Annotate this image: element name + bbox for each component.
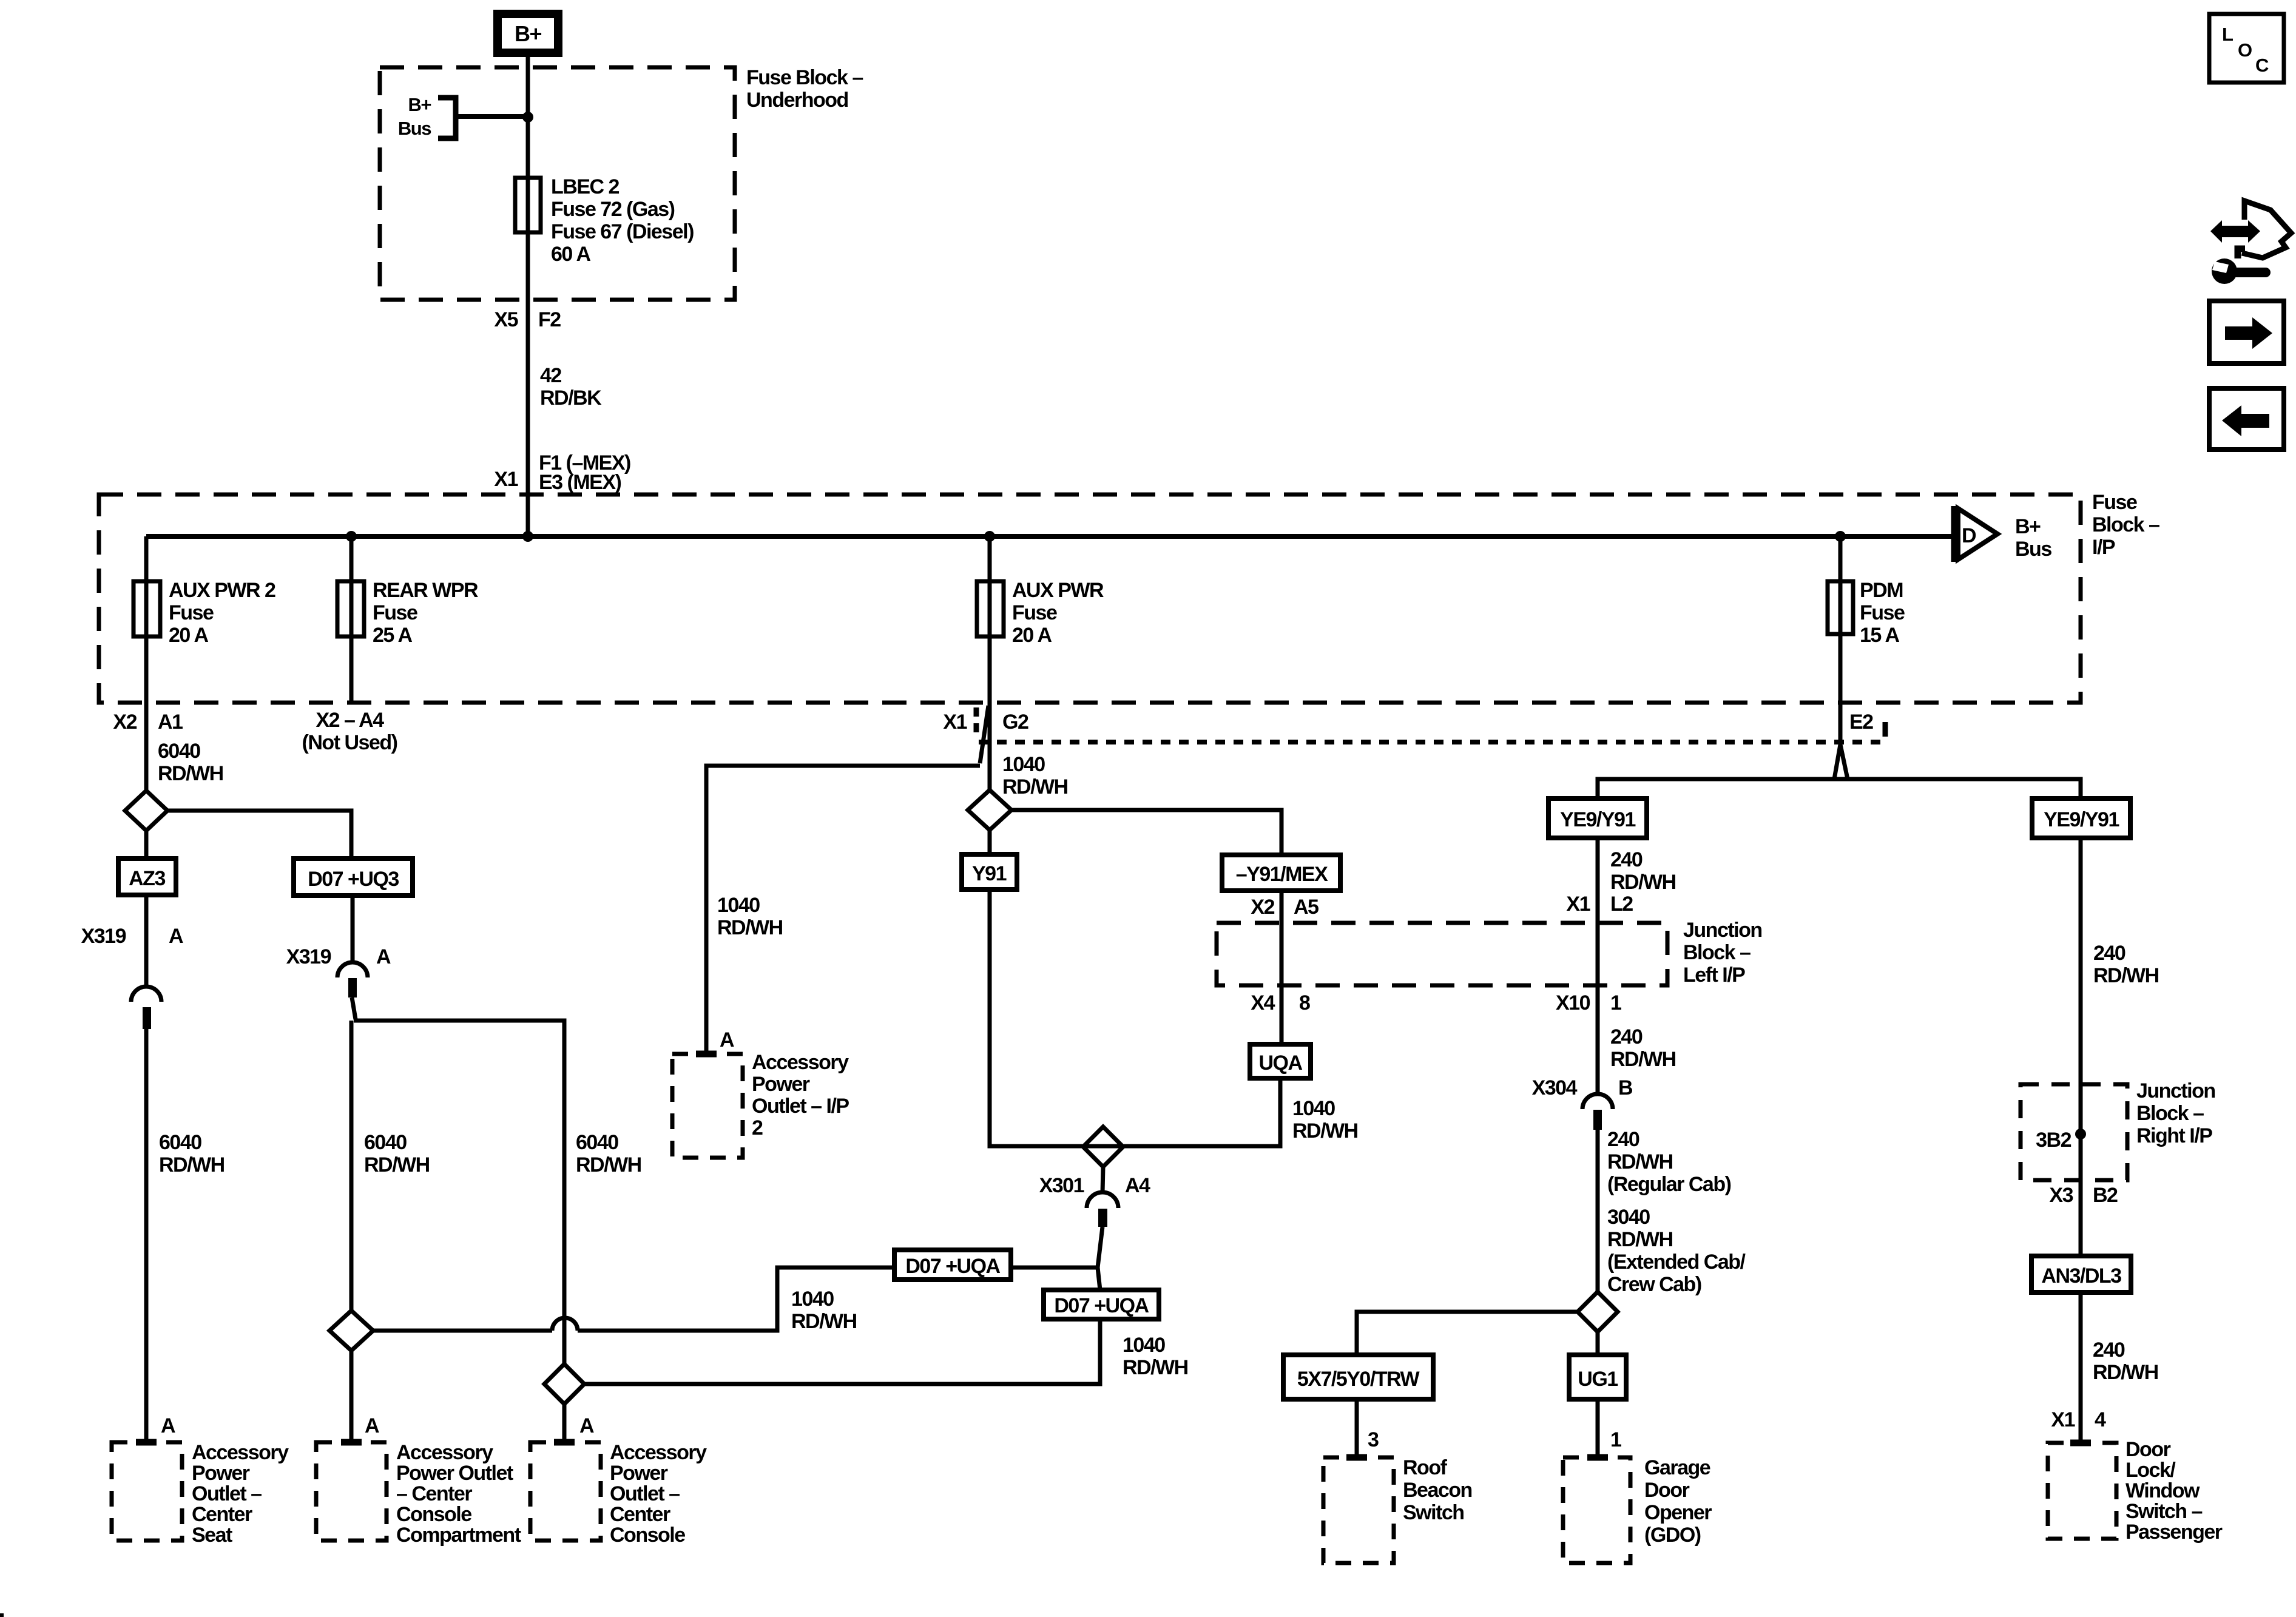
wire label 240 RD/WH (below junction)	[1610, 1025, 1676, 1071]
svg-text:42: 42	[540, 364, 561, 387]
component box YE9/Y91 (left)	[1548, 798, 1647, 838]
svg-text:240: 240	[1610, 1025, 1643, 1048]
svg-text:Accessory: Accessory	[396, 1441, 493, 1464]
svg-text:RD/WH: RD/WH	[1607, 1150, 1673, 1173]
svg-text:6040: 6040	[364, 1131, 407, 1154]
component box AZ3	[118, 859, 176, 895]
svg-text:A: A	[365, 1414, 379, 1437]
pin labels X1 L2	[1566, 893, 1633, 916]
battery feed symbol B+	[498, 14, 558, 53]
connector row dotted line E2	[979, 740, 1885, 744]
wire pdm branch	[1838, 536, 1843, 744]
svg-text:A5: A5	[1294, 896, 1319, 919]
svg-text:6040: 6040	[158, 740, 200, 763]
wire 5X7 to roof beacon switch	[1355, 1399, 1359, 1457]
svg-text:Junction: Junction	[1683, 919, 1762, 942]
B+ Bus stub bracket	[398, 94, 456, 139]
junction node main feed to bus	[522, 531, 533, 542]
svg-text:3B2: 3B2	[2036, 1129, 2071, 1152]
svg-text:RD/WH: RD/WH	[1123, 1356, 1188, 1379]
wire YE9/Y91 right down	[2079, 838, 2083, 1256]
splice diamond S5	[1578, 1292, 1618, 1332]
svg-text:1040: 1040	[1123, 1334, 1165, 1357]
pin labels X304 B	[1532, 1076, 1633, 1099]
svg-text:Fuse: Fuse	[373, 601, 417, 624]
junction node aux pwr	[984, 531, 995, 542]
svg-text:X4: X4	[1251, 991, 1275, 1014]
svg-text:Console: Console	[396, 1503, 471, 1526]
svg-text:–Y91/MEX: –Y91/MEX	[1236, 863, 1328, 886]
wire S5 to UG1	[1596, 1332, 1600, 1355]
svg-text:Bus: Bus	[2015, 538, 2051, 561]
junction block right I/P dashed box	[2021, 1084, 2127, 1180]
svg-text:A: A	[720, 1028, 734, 1052]
svg-text:Door: Door	[1644, 1479, 1690, 1502]
junction node rear wpr	[346, 531, 357, 542]
svg-text:Power: Power	[752, 1073, 810, 1096]
pin labels X1 G2 with connector tick	[943, 707, 1028, 737]
svg-text:(Regular Cab): (Regular Cab)	[1607, 1173, 1731, 1196]
svg-text:RD/BK: RD/BK	[540, 387, 602, 410]
wire label 6040 RD/WH (2)	[364, 1131, 430, 1176]
svg-text:3040: 3040	[1607, 1206, 1650, 1229]
svg-text:X5: X5	[494, 308, 518, 331]
svg-text:RD/WH: RD/WH	[2093, 964, 2159, 987]
svg-text:Outlet –: Outlet –	[192, 1482, 262, 1505]
wire UG1 to garage door opener	[1596, 1399, 1600, 1457]
svg-text:1040: 1040	[791, 1288, 834, 1311]
svg-text:X319: X319	[286, 945, 331, 968]
svg-text:X3: X3	[2049, 1184, 2073, 1207]
svg-text:PDM: PDM	[1860, 579, 1903, 602]
fuse AUX PWR 2 20A	[133, 579, 275, 647]
pin labels X319 A (left)	[81, 925, 183, 948]
svg-text:Center: Center	[192, 1503, 252, 1526]
svg-text:X2 – A4: X2 – A4	[316, 709, 384, 732]
wire AN3/DL3 to door lock switch	[2079, 1292, 2083, 1443]
wire label 1040 RD/WH (upper D07)	[791, 1288, 857, 1333]
splice diamond S2 (X301 row)	[1083, 1127, 1123, 1167]
svg-text:X1: X1	[494, 468, 518, 491]
wire down to splice diamond S3	[349, 1021, 354, 1311]
pin labels X319 A (right)	[286, 945, 391, 968]
svg-text:X2: X2	[113, 711, 137, 734]
wire diamond to -Y91/MEX	[1011, 810, 1281, 855]
roof beacon switch dashed box	[1323, 1457, 1394, 1563]
svg-text:25 A: 25 A	[373, 624, 413, 647]
label X2-A4 not used	[302, 709, 397, 754]
fuse PDM 15A	[1828, 579, 1905, 647]
door lock window switch dashed box	[2048, 1443, 2116, 1539]
roof beacon switch label	[1403, 1456, 1472, 1524]
wire label 1040 RD/WH (left branch)	[717, 894, 783, 939]
service icon (hand with wrench)	[2210, 201, 2291, 284]
svg-text:RD/WH: RD/WH	[1610, 871, 1676, 894]
svg-text:B+: B+	[408, 94, 431, 115]
svg-text:AN3/DL3: AN3/DL3	[2041, 1264, 2121, 1288]
svg-text:6040: 6040	[576, 1131, 618, 1154]
svg-text:LBEC 2: LBEC 2	[551, 175, 620, 198]
pin labels X5 F2	[494, 308, 561, 331]
pin labels X4 8	[1251, 991, 1310, 1014]
wire B+ Bus stub to main feed	[456, 114, 528, 119]
wire label 6040 RD/WH (left)	[158, 740, 223, 785]
svg-text:240: 240	[1610, 848, 1643, 871]
svg-text:Outlet –: Outlet –	[610, 1482, 680, 1505]
junction block left I/P dashed box	[1217, 923, 1667, 985]
wire diamond to AZ3	[144, 831, 149, 859]
svg-text:8: 8	[1299, 991, 1310, 1014]
svg-text:Seat: Seat	[192, 1524, 232, 1547]
svg-text:RD/WH: RD/WH	[576, 1153, 641, 1176]
svg-text:X1: X1	[2051, 1408, 2075, 1431]
svg-text:(GDO): (GDO)	[1644, 1524, 1701, 1547]
connector X319 (right, arc and pin)	[337, 896, 368, 1019]
svg-text:20 A: 20 A	[1012, 624, 1052, 647]
svg-text:Y91: Y91	[972, 862, 1007, 885]
svg-text:A: A	[579, 1414, 594, 1437]
svg-text:UG1: UG1	[1578, 1368, 1618, 1391]
svg-text:X301: X301	[1039, 1174, 1084, 1197]
fuse block I/P dashed box	[99, 495, 2081, 703]
wire label 240 RD/WH (right pdm)	[2093, 942, 2159, 987]
svg-text:Outlet – I/P: Outlet – I/P	[752, 1095, 849, 1118]
svg-text:Switch –: Switch –	[2125, 1500, 2203, 1523]
pin label E2 with connector tick	[1849, 711, 1885, 737]
svg-text:X304: X304	[1532, 1076, 1578, 1099]
svg-text:Power: Power	[192, 1462, 250, 1485]
svg-text:A: A	[161, 1414, 175, 1437]
svg-text:15 A: 15 A	[1860, 624, 1900, 647]
svg-text:Console: Console	[610, 1524, 685, 1547]
hop over center console wire	[552, 1318, 578, 1331]
svg-text:D07 +UQA: D07 +UQA	[905, 1255, 1000, 1278]
splice diamond S4	[544, 1364, 584, 1404]
svg-text:YE9/Y91: YE9/Y91	[2044, 808, 2119, 831]
connector X301 (arc and pin)	[1087, 1167, 1118, 1290]
svg-text:B+: B+	[515, 21, 541, 46]
accessory power outlet center console dashed box	[530, 1442, 601, 1541]
fuse AUX PWR 20A	[977, 579, 1104, 647]
svg-text:AZ3: AZ3	[129, 867, 165, 890]
svg-text:D07 +UQ3: D07 +UQ3	[308, 868, 399, 891]
svg-text:C: C	[2255, 55, 2269, 76]
component box D07 +UQA (lower)	[1044, 1290, 1159, 1319]
svg-text:Bus: Bus	[398, 118, 431, 139]
svg-text:E3 (MEX): E3 (MEX)	[539, 471, 621, 494]
svg-text:AUX PWR: AUX PWR	[1012, 579, 1104, 602]
svg-text:RD/WH: RD/WH	[1610, 1048, 1676, 1071]
svg-text:YE9/Y91: YE9/Y91	[1560, 808, 1635, 831]
wire kink at G2 with left branch	[980, 706, 988, 763]
wire diamond to Y91	[988, 830, 992, 854]
svg-text:1: 1	[1610, 1428, 1621, 1451]
accessory power outlet center console compartment dashed box	[316, 1442, 387, 1541]
svg-text:20 A: 20 A	[169, 624, 209, 647]
wire branch to accessory power outlet I/P 2	[706, 766, 980, 1054]
svg-text:3: 3	[1368, 1428, 1379, 1451]
svg-text:Fuse: Fuse	[2092, 491, 2137, 514]
svg-text:RD/WH: RD/WH	[1607, 1228, 1673, 1251]
component box Y91	[962, 854, 1017, 890]
svg-text:A1: A1	[158, 711, 183, 734]
svg-text:1: 1	[1610, 991, 1621, 1014]
component box AN3/DL3	[2031, 1256, 2131, 1292]
fuse REAR WPR 25A	[337, 579, 478, 647]
accessory power outlet I/P 2 dashed box	[672, 1054, 743, 1158]
splice diamond S0 (left column)	[125, 791, 167, 831]
pin labels X2 A5	[1251, 896, 1319, 919]
component box YE9/Y91 (right)	[2032, 798, 2130, 838]
svg-text:Roof: Roof	[1403, 1456, 1448, 1479]
B+ bus line inside fuse block I/P	[146, 534, 1954, 539]
accessory power outlet center console label	[610, 1441, 707, 1547]
component box UQA	[1250, 1044, 1311, 1078]
wire rear wpr branch (not used)	[349, 536, 354, 703]
page corner mark	[0, 1613, 4, 1617]
wire label 1040 RD/WH (lower D07)	[1123, 1334, 1188, 1379]
svg-text:60 A: 60 A	[551, 243, 591, 266]
triangle D bus continuation	[1954, 506, 2051, 562]
svg-text:Accessory: Accessory	[610, 1441, 707, 1464]
wire S4 to center console outlet	[562, 1404, 567, 1442]
next page arrow icon	[2209, 301, 2284, 363]
svg-text:RD/WH: RD/WH	[2093, 1361, 2158, 1384]
svg-text:Junction: Junction	[2136, 1079, 2215, 1102]
svg-text:Door: Door	[2125, 1438, 2171, 1461]
svg-text:RD/WH: RD/WH	[364, 1153, 430, 1176]
svg-text:Opener: Opener	[1644, 1501, 1712, 1524]
fuse LBEC 2	[515, 175, 694, 266]
pin labels X301 A4	[1039, 1174, 1150, 1197]
previous page arrow icon	[2209, 388, 2284, 450]
fuse block underhood label	[746, 66, 863, 112]
svg-text:Power Outlet: Power Outlet	[396, 1462, 513, 1485]
wire UQA down to splice row	[990, 890, 1280, 1146]
svg-text:Switch: Switch	[1403, 1501, 1464, 1524]
svg-text:Fuse: Fuse	[169, 601, 214, 624]
svg-text:X1: X1	[943, 711, 967, 734]
svg-text:X2: X2	[1251, 896, 1274, 919]
component box UG1	[1569, 1355, 1626, 1399]
svg-text:240: 240	[2093, 1338, 2125, 1362]
svg-text:Beacon: Beacon	[1403, 1479, 1472, 1502]
svg-text:X1: X1	[1566, 893, 1590, 916]
junction node on main feed	[522, 112, 533, 123]
svg-text:1040: 1040	[1292, 1097, 1335, 1120]
accessory power outlet center seat label	[192, 1441, 289, 1547]
svg-text:Block –: Block –	[2136, 1102, 2204, 1125]
component box D07 +UQA (upper)	[894, 1250, 1011, 1280]
svg-text:I/P: I/P	[2092, 536, 2115, 559]
wire junction block to UQA	[1280, 985, 1284, 1044]
svg-text:Passenger: Passenger	[2125, 1521, 2223, 1544]
wire label 1040 RD/WH (UQA branch)	[1292, 1097, 1358, 1143]
svg-text:Fuse 67 (Diesel): Fuse 67 (Diesel)	[551, 220, 694, 243]
svg-text:Garage: Garage	[1644, 1456, 1710, 1479]
svg-text:1040: 1040	[1002, 753, 1045, 776]
svg-text:240: 240	[2093, 942, 2125, 965]
svg-text:Fuse 72 (Gas): Fuse 72 (Gas)	[551, 198, 675, 221]
svg-text:Fuse Block –: Fuse Block –	[746, 66, 863, 89]
svg-text:Left I/P: Left I/P	[1683, 964, 1745, 987]
wire hop to splice diamond S3	[373, 1329, 552, 1333]
svg-text:A: A	[376, 945, 391, 968]
svg-text:Fuse: Fuse	[1012, 601, 1057, 624]
svg-text:B: B	[1618, 1076, 1633, 1099]
svg-text:X10: X10	[1556, 991, 1590, 1014]
accessory power outlet I/P 2 label	[752, 1051, 849, 1139]
pin labels F1/E3 X1	[494, 451, 630, 494]
fuse block underhood dashed box	[380, 67, 735, 300]
wire label 42 RD/BK	[540, 364, 602, 410]
wire S5 to 5X7/5Y0/TRW	[1357, 1312, 1578, 1355]
LOC icon box	[2209, 14, 2284, 83]
node 3B2	[2036, 1129, 2086, 1152]
svg-text:X319: X319	[81, 925, 126, 948]
fuse block I/P label	[2092, 491, 2159, 559]
svg-text:RD/WH: RD/WH	[1292, 1119, 1358, 1143]
svg-text:4: 4	[2095, 1408, 2106, 1431]
svg-text:G2: G2	[1002, 711, 1028, 734]
wire label 240 RD/WH (left pdm)	[1610, 848, 1676, 894]
component box -Y91/MEX	[1222, 855, 1340, 891]
connector X319 (left, arc and pin)	[131, 895, 161, 1029]
svg-text:A4: A4	[1125, 1174, 1150, 1197]
svg-text:D: D	[1962, 524, 1976, 547]
svg-text:RD/WH: RD/WH	[159, 1153, 225, 1176]
svg-text:B+: B+	[2015, 515, 2041, 538]
garage door opener dashed box	[1563, 1457, 1630, 1563]
svg-text:RD/WH: RD/WH	[791, 1310, 857, 1333]
svg-text:Lock/: Lock/	[2125, 1459, 2176, 1482]
pin labels X3 B2	[2049, 1184, 2118, 1207]
wire label 3040 RD/WH extended cab	[1607, 1206, 1746, 1296]
splice diamond S1 (aux pwr)	[968, 790, 1011, 830]
svg-text:RD/WH: RD/WH	[1002, 775, 1068, 798]
pin labels X10 1	[1556, 991, 1621, 1014]
accessory power outlet center console compartment label	[396, 1441, 521, 1547]
svg-text:Fuse: Fuse	[1860, 601, 1905, 624]
svg-text:(Extended Cab/: (Extended Cab/	[1607, 1251, 1746, 1274]
wire split to center console outlet	[354, 1021, 564, 1364]
wire aux pwr 2 branch	[144, 536, 149, 791]
accessory power outlet center seat dashed box	[112, 1442, 182, 1541]
wire -Y91/MEX to junction block left	[1280, 891, 1284, 923]
wire through junction block (X2/A5 to X4/8)	[1280, 923, 1284, 985]
component box D07 +UQ3	[294, 859, 413, 896]
svg-text:Accessory: Accessory	[192, 1441, 289, 1464]
svg-text:E2: E2	[1849, 711, 1873, 734]
junction block left I/P label	[1683, 919, 1762, 987]
door lock window switch label	[2125, 1438, 2223, 1544]
svg-text:L2: L2	[1610, 893, 1633, 916]
svg-text:240: 240	[1607, 1128, 1639, 1151]
pdm birdfoot split	[1834, 744, 1848, 779]
wire X304 to splice diamond S5	[1596, 1130, 1600, 1292]
splice diamond S3	[329, 1311, 373, 1351]
wire YE9/Y91 left to junction block	[1596, 838, 1600, 985]
component box 5X7/5Y0/TRW	[1283, 1355, 1433, 1399]
svg-text:Window: Window	[2125, 1479, 2200, 1502]
svg-text:O: O	[2238, 39, 2252, 61]
svg-text:Compartment: Compartment	[396, 1524, 521, 1547]
wire to D07 +UQA (left)	[1011, 1266, 1098, 1270]
svg-text:6040: 6040	[159, 1131, 201, 1154]
svg-text:B2: B2	[2093, 1184, 2118, 1207]
connector X304 (arc and pin)	[1582, 985, 1613, 1130]
wire label 1040 RD/WH (aux pwr)	[1002, 753, 1068, 798]
svg-text:RD/WH: RD/WH	[158, 762, 223, 785]
svg-text:Block –: Block –	[2092, 513, 2159, 536]
wire label 240 RD/WH regular cab	[1607, 1128, 1731, 1196]
svg-text:Accessory: Accessory	[752, 1051, 849, 1074]
svg-text:2: 2	[752, 1116, 763, 1139]
svg-text:D07 +UQA: D07 +UQA	[1054, 1294, 1149, 1317]
wire X319 to center seat outlet	[144, 1028, 149, 1442]
wire label 6040 RD/WH (1)	[159, 1131, 225, 1176]
wire S3 to center console compartment outlet	[349, 1351, 354, 1442]
pin labels X2 A1	[113, 711, 183, 734]
svg-text:Right I/P: Right I/P	[2136, 1124, 2212, 1147]
svg-text:REAR WPR: REAR WPR	[373, 579, 478, 602]
junction node pdm	[1835, 531, 1846, 542]
svg-text:Center: Center	[610, 1503, 670, 1526]
svg-text:(Not Used): (Not Used)	[302, 731, 397, 754]
svg-text:Crew Cab): Crew Cab)	[1607, 1273, 1701, 1296]
svg-text:RD/WH: RD/WH	[717, 916, 783, 939]
svg-text:Power: Power	[610, 1462, 668, 1485]
wire pdm split horizontal	[1598, 779, 2081, 798]
svg-text:UQA: UQA	[1258, 1052, 1302, 1075]
wire D07 +UQA lower to splice diamond S4	[584, 1319, 1100, 1384]
svg-text:A: A	[169, 925, 183, 948]
svg-text:Block –: Block –	[1683, 941, 1751, 964]
wire aux pwr branch	[988, 536, 992, 790]
svg-text:L: L	[2222, 24, 2233, 45]
svg-text:1040: 1040	[717, 894, 760, 917]
wire D07 +UQA left to splice row	[578, 1268, 894, 1331]
svg-text:Underhood: Underhood	[746, 89, 848, 112]
wire diamond to D07 +UQ3	[167, 811, 351, 859]
svg-text:AUX PWR 2: AUX PWR 2	[169, 579, 275, 602]
svg-text:5X7/5Y0/TRW: 5X7/5Y0/TRW	[1297, 1368, 1420, 1391]
junction block right I/P label	[2136, 1079, 2215, 1147]
wire label 6040 RD/WH (3)	[576, 1131, 641, 1176]
garage door opener label	[1644, 1456, 1712, 1547]
wire label 240 RD/WH (an3)	[2093, 1338, 2158, 1384]
svg-text:– Center: – Center	[396, 1482, 472, 1505]
pin labels X1 4	[2051, 1408, 2106, 1431]
svg-text:F2: F2	[538, 308, 561, 331]
wire B+ to bus (42 RD/BK main feed)	[526, 57, 530, 536]
